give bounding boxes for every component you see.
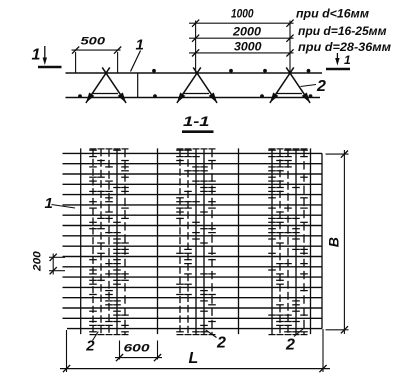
svg-text:500: 500: [81, 36, 107, 48]
svg-text:1: 1: [45, 195, 53, 212]
svg-text:1000: 1000: [231, 7, 254, 21]
mesh vertical wires (plan): [81, 148, 322, 334]
support label 2 leader (elevation): [301, 78, 327, 95]
svg-text:при d=16-25мм: при d=16-25мм: [298, 24, 387, 38]
support row 2 (plan, dashed): [176, 149, 216, 335]
mesh cross wire (elevation): [137, 73, 139, 98]
support label 2 (bottom right): [285, 328, 304, 353]
mesh label 1 leader (plan): [45, 195, 76, 212]
dimension 600 (bottom): [115, 341, 162, 362]
support spacer 3 (elevation): [270, 67, 310, 103]
support label 2 (bottom middle): [206, 330, 226, 352]
support row 1 (plan, dashed): [89, 149, 129, 335]
dimension 500: [72, 36, 122, 74]
mesh top chord wire: [66, 72, 323, 74]
svg-text:200: 200: [32, 250, 44, 272]
svg-text:1: 1: [32, 47, 41, 64]
longitudinal bar dots on top chord: [152, 69, 310, 73]
dimension B (right): [325, 150, 348, 334]
svg-text:L: L: [189, 350, 199, 367]
longitudinal bar dots on bottom chord: [78, 94, 312, 98]
svg-text:1: 1: [344, 53, 351, 67]
support spacer 1 (elevation): [86, 67, 126, 103]
section title 1-1: [182, 113, 214, 132]
svg-text:2000: 2000: [232, 25, 261, 39]
dimension 200 (left): [32, 250, 66, 274]
svg-text:при d=28-36мм: при d=28-36мм: [298, 40, 391, 54]
svg-text:3000: 3000: [234, 39, 262, 53]
dimension L (bottom): [60, 329, 330, 372]
svg-text:600: 600: [124, 343, 151, 355]
support row 3 (plan, dashed): [268, 149, 308, 335]
svg-text:1-1: 1-1: [183, 113, 210, 129]
svg-text:2: 2: [85, 338, 95, 355]
svg-text:при d<16мм: при d<16мм: [296, 6, 369, 20]
mesh bottom chord wire: [66, 97, 321, 99]
svg-text:2: 2: [316, 78, 326, 95]
support label 2 (bottom left): [85, 332, 98, 355]
dimension group 1000/2000/3000: [189, 7, 294, 73]
svg-text:2: 2: [216, 335, 226, 352]
svg-text:B: B: [325, 237, 341, 247]
section mark 1 (right): [326, 53, 351, 69]
mesh label 1 leader: [131, 37, 144, 72]
support spacer 2 (elevation): [177, 67, 217, 103]
svg-text:2: 2: [285, 336, 295, 353]
mesh horizontal wires (plan): [63, 153, 323, 328]
section mark 1 (left): [32, 46, 62, 67]
